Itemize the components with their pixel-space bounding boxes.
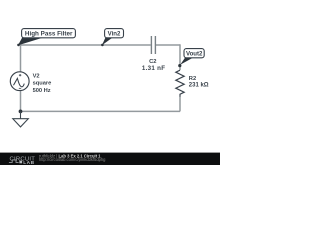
wire: bottom horizontal from ground junction to right branch: [21, 110, 181, 112]
svg-text:Vout2: Vout2: [186, 51, 203, 58]
wire: left vertical from V2 bottom terminal to ground junction: [20, 91, 22, 112]
label V2 value: [33, 73, 52, 94]
wire: top horizontal from source to capacitor C2 left plate: [21, 44, 151, 46]
svg-text:V2: V2: [33, 73, 40, 79]
flag: node Vout2: [180, 49, 204, 65]
svg-text:500 Hz: 500 Hz: [33, 88, 51, 94]
svg-text:High Pass Filter: High Pass Filter: [25, 31, 73, 38]
svg-text:1.31 nF: 1.31 nF: [142, 65, 165, 72]
svg-text:LAB: LAB: [23, 160, 34, 165]
svg-text:R2: R2: [189, 76, 196, 82]
svg-text:231 kΩ: 231 kΩ: [189, 82, 209, 88]
svg-text:square: square: [33, 81, 52, 87]
capacitor C2: [151, 36, 155, 54]
svg-text:Vin2: Vin2: [108, 31, 121, 38]
wire: left vertical from top corner down to V2 top terminal: [20, 44, 22, 72]
junction dot at ground node: [19, 110, 23, 114]
junction dot at Vout2 node: [178, 64, 181, 67]
resistor R2: [176, 70, 184, 96]
wire: top horizontal from capacitor C2 right plate to right corner: [156, 44, 180, 46]
label C2 value: [142, 59, 165, 72]
svg-text:http://circuitlab.com/c/pmkd3k: http://circuitlab.com/c/pmkd3kf5dphg: [39, 157, 106, 162]
label R2 value: [189, 76, 209, 88]
footer bar: [0, 153, 220, 165]
voltage source V2: [10, 72, 29, 91]
wire: right vertical from R2 bottom to bottom corner: [179, 96, 181, 111]
ground: [13, 111, 28, 127]
flag: High Pass Filter: [17, 29, 75, 47]
CircuitLab logo: [9, 156, 35, 166]
flag: node Vin2: [101, 29, 123, 47]
wire: right vertical from top corner to Vout2 node: [179, 44, 181, 70]
